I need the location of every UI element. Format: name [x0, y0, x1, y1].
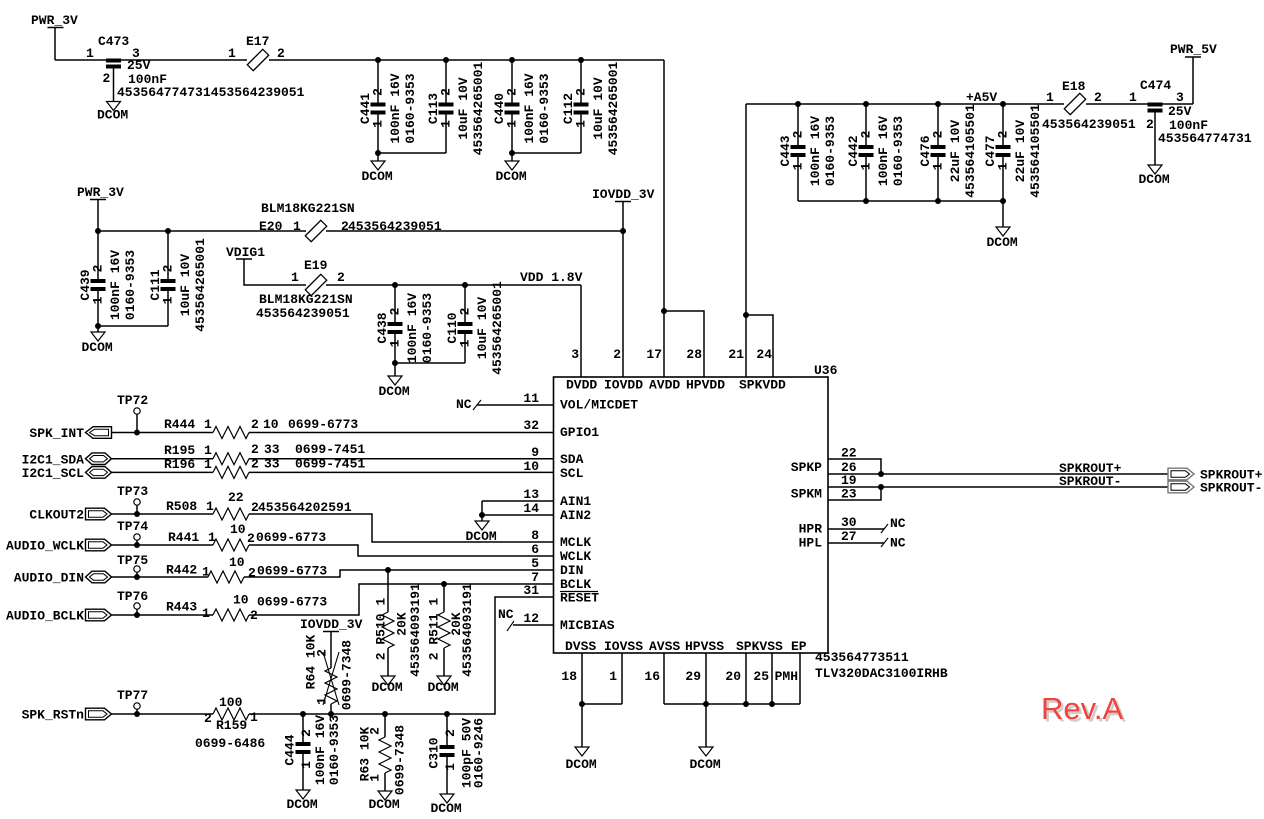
svg-text:453564265001: 453564265001: [606, 61, 621, 155]
svg-text:MCLK: MCLK: [560, 535, 591, 550]
svg-text:E19: E19: [304, 258, 328, 273]
svg-text:1: 1: [438, 120, 453, 128]
svg-text:5: 5: [531, 556, 539, 571]
svg-text:18: 18: [561, 669, 577, 684]
svg-text:TP74: TP74: [117, 519, 148, 534]
svg-text:10uF 10V: 10uF 10V: [475, 297, 490, 360]
svg-text:10: 10: [229, 555, 245, 570]
pin number 31 (RESET): [523, 583, 599, 606]
node junction R64: [328, 711, 334, 717]
pin number 17 (AVDD): [646, 347, 662, 362]
svg-text:TP76: TP76: [117, 589, 148, 604]
node junction SPKROUT-: [878, 484, 884, 490]
ground DCOM (C441/C113): [362, 161, 393, 184]
U36 right pin names SPKP/SPKM: [791, 460, 822, 502]
svg-text:453564774731: 453564774731: [1158, 131, 1252, 146]
svg-text:27: 27: [841, 529, 857, 544]
svg-text:AUDIO_WCLK: AUDIO_WCLK: [6, 539, 84, 554]
svg-text:DCOM: DCOM: [369, 797, 400, 812]
svg-text:R442: R442: [166, 563, 197, 578]
svg-text:453564239051: 453564239051: [211, 85, 305, 100]
wire AVSS-EP rail: [664, 703, 800, 705]
wire R508 to MCLK pin 8: [249, 514, 554, 542]
svg-text:22: 22: [841, 446, 857, 461]
ferrite bead E20: [259, 201, 442, 242]
wire C440-C112 bottom rail: [512, 152, 581, 154]
svg-text:TP75: TP75: [117, 553, 148, 568]
resistor R510 20K: [373, 570, 423, 677]
node junction C110 top: [462, 282, 468, 288]
svg-text:AIN2: AIN2: [560, 508, 591, 523]
capacitor C443 100nF: [778, 104, 838, 201]
svg-text:DCOM: DCOM: [566, 757, 597, 772]
svg-text:23: 23: [841, 487, 857, 502]
capacitor C440 100nF: [492, 60, 552, 153]
svg-text:453564265001: 453564265001: [471, 61, 486, 155]
svg-text:SPKP: SPKP: [791, 460, 822, 475]
wire to ground (C441): [377, 153, 379, 161]
node junction C441 top: [375, 57, 381, 63]
pin 30 HPR no-connect: [799, 515, 906, 537]
svg-text:14: 14: [523, 501, 539, 516]
wire SPKROUT-: [881, 474, 1168, 489]
svg-text:13: 13: [523, 487, 539, 502]
svg-text:28: 28: [686, 347, 702, 362]
wire branch to SPKVDD pin 24: [746, 315, 773, 377]
node junction SPKVDD: [743, 312, 749, 318]
svg-text:AVDD: AVDD: [649, 378, 680, 393]
svg-text:1: 1: [930, 162, 945, 170]
svg-text:2: 2: [90, 264, 105, 272]
node junction TP76: [134, 612, 140, 618]
capacitor C310 100pF: [426, 714, 486, 794]
ferrite bead E19: [256, 258, 353, 321]
wire to ground (C439): [97, 326, 99, 332]
wire +A5V rail: [746, 103, 1193, 105]
svg-text:DVSS: DVSS: [565, 639, 596, 654]
svg-text:SPKM: SPKM: [791, 487, 822, 502]
power flag PWR_3V (top-left): [31, 13, 78, 60]
svg-text:22: 22: [228, 490, 244, 505]
svg-text:8: 8: [531, 528, 539, 543]
svg-text:1: 1: [160, 296, 175, 304]
pin number 10 (SCL): [523, 459, 583, 481]
pin 29 HPVSS: [685, 653, 706, 704]
svg-text:DCOM: DCOM: [496, 169, 527, 184]
ferrite bead E17: [211, 34, 305, 100]
svg-text:2: 2: [367, 727, 382, 735]
wire HPVSS to ground: [705, 704, 707, 747]
resistor R195 33: [164, 442, 365, 465]
pin number 24 (SPKVDD): [756, 347, 772, 362]
node junction C439 bottom: [95, 323, 101, 329]
svg-text:C443: C443: [778, 135, 793, 166]
svg-text:+A5V: +A5V: [966, 90, 997, 105]
svg-text:1: 1: [293, 219, 301, 234]
node junction TP72: [134, 430, 140, 436]
svg-text:2 R510 1: 2 R510 1: [373, 598, 388, 661]
revision label Rev.A: [1041, 691, 1126, 729]
svg-text:0699-7451: 0699-7451: [295, 457, 365, 472]
capacitor C113 10uF: [426, 60, 486, 155]
node junction R63: [382, 711, 388, 717]
wire R444 to GPIO1 pin 32: [249, 432, 554, 434]
svg-text:E17: E17: [246, 34, 269, 49]
svg-text:2: 2: [277, 46, 285, 61]
pin number 5 (DIN): [531, 556, 583, 578]
svg-text:R64 10K: R64 10K: [303, 634, 318, 689]
pin 19 SPKM: [828, 473, 881, 488]
svg-text:20: 20: [725, 669, 741, 684]
svg-text:2: 2: [251, 417, 259, 432]
svg-text:453564773511: 453564773511: [815, 650, 909, 665]
resistor R196 33: [164, 457, 365, 479]
capacitor C477 22uF: [983, 104, 1043, 201]
wire AIN1 to AIN2: [481, 501, 483, 515]
node junction HPVSS: [703, 701, 709, 707]
svg-text:DCOM: DCOM: [379, 384, 410, 399]
ground DCOM (AVSS): [690, 747, 721, 772]
svg-text:29: 29: [685, 669, 701, 684]
connector tag AUDIO_WCLK: [6, 539, 112, 554]
svg-text:100nF 16V: 100nF 16V: [388, 73, 403, 143]
svg-text:DCOM: DCOM: [428, 680, 459, 695]
wire PWR_3V to C473/E17: [55, 59, 247, 61]
svg-text:453564239051: 453564239051: [1042, 117, 1136, 132]
svg-text:2: 2: [1094, 90, 1102, 105]
pin 12 MICBIAS no-connect: [498, 607, 615, 633]
svg-text:IOVSS: IOVSS: [604, 639, 643, 654]
test point TP75: [117, 553, 148, 577]
wire R196 to SCL pin 10: [249, 471, 554, 473]
svg-text:30: 30: [841, 515, 857, 530]
svg-text:1: 1: [367, 774, 382, 782]
pin number 2 (IOVDD): [613, 347, 621, 362]
svg-text:10: 10: [230, 522, 246, 537]
node junction TP74: [134, 542, 140, 548]
svg-text:DCOM: DCOM: [987, 235, 1018, 250]
svg-text:2: 2: [370, 88, 385, 96]
power flag PWR_5V: [1170, 42, 1217, 104]
resistor R441 10: [168, 522, 326, 551]
ground DCOM (DVSS): [566, 747, 597, 772]
wire AIN to ground: [481, 515, 483, 521]
resistor R508 22: [166, 490, 352, 520]
svg-text:E18: E18: [1062, 79, 1086, 94]
wire R443 to BCLK pin 7: [249, 584, 554, 615]
connector tag CLKOUT2: [29, 508, 111, 523]
node junction C441 bottom: [375, 150, 381, 156]
wire SPK_INT to R444: [112, 432, 214, 434]
svg-text:C444: C444: [282, 734, 297, 765]
node junction C438 top: [392, 282, 398, 288]
svg-text:1: 1: [443, 763, 458, 771]
svg-text:0699-6773: 0699-6773: [256, 530, 326, 545]
svg-text:2: 2: [858, 130, 873, 138]
node junction TP75: [134, 574, 140, 580]
svg-text:R508: R508: [166, 499, 197, 514]
svg-text:31: 31: [523, 583, 539, 598]
node junction C440 bottom: [509, 150, 515, 156]
svg-text:GPIO1: GPIO1: [560, 425, 599, 440]
wire R442 to DIN pin 5: [244, 570, 554, 577]
svg-text:22uF 10V: 22uF 10V: [948, 120, 963, 183]
svg-text:HPVDD: HPVDD: [686, 378, 725, 393]
svg-text:C111: C111: [148, 269, 163, 300]
svg-text:U36: U36: [814, 363, 838, 378]
svg-text:1: 1: [228, 46, 236, 61]
node junction C476 bottom: [935, 198, 941, 204]
node junction R511/BCLK: [441, 581, 447, 587]
svg-text:2: 2: [1146, 117, 1154, 132]
capacitor C112 10uF: [561, 60, 621, 155]
svg-text:1: 1: [314, 697, 329, 705]
svg-text:0160-9353: 0160-9353: [891, 116, 906, 186]
wire VDD 1.8V to pin 3: [580, 285, 582, 377]
svg-text:I2C1_SCL: I2C1_SCL: [22, 466, 85, 481]
svg-text:C112: C112: [561, 93, 576, 124]
svg-text:1: 1: [204, 417, 212, 432]
svg-text:Rev.A: Rev.A: [1041, 691, 1123, 726]
U36 top pin names: [566, 378, 786, 393]
svg-text:C476: C476: [918, 135, 933, 166]
capacitor C438 100nF: [375, 285, 435, 363]
svg-text:IOVDD: IOVDD: [604, 378, 643, 393]
svg-text:2: 2: [251, 457, 259, 472]
capacitor C110 10uF: [445, 281, 505, 375]
svg-text:R443: R443: [166, 600, 197, 615]
pin number 7 (BCLK): [531, 570, 591, 592]
svg-text:24: 24: [756, 347, 772, 362]
svg-text:SPKROUT-: SPKROUT-: [1059, 474, 1121, 489]
svg-text:1: 1: [858, 162, 873, 170]
ground DCOM (R510): [372, 676, 403, 695]
connector tag SPK_RSTn: [22, 708, 112, 723]
svg-text:1: 1: [609, 669, 617, 684]
svg-text:6: 6: [531, 542, 539, 557]
svg-text:C438: C438: [375, 312, 390, 343]
pin 13 AIN1: [482, 487, 591, 509]
svg-text:RESET: RESET: [560, 591, 599, 606]
svg-text:0160-9246: 0160-9246: [471, 718, 486, 788]
capacitor C111 10uF: [148, 231, 208, 332]
svg-text:2: 2: [247, 531, 255, 546]
wire DVSS-IOVSS rail: [582, 703, 622, 705]
svg-text:1: 1: [86, 46, 94, 61]
svg-text:2: 2: [103, 71, 111, 86]
svg-text:NC: NC: [498, 607, 514, 622]
svg-text:SPKVDD: SPKVDD: [739, 378, 786, 393]
svg-text:C440: C440: [492, 93, 507, 124]
pin number 21 (SPKVDD): [728, 347, 744, 362]
ground DCOM (C474): [1139, 165, 1170, 187]
svg-text:1: 1: [457, 339, 472, 347]
svg-text:10uF 10V: 10uF 10V: [591, 77, 606, 140]
svg-text:DCOM: DCOM: [97, 108, 128, 123]
svg-text:2: 2: [299, 729, 314, 737]
resistor R64 10K (DNI crossed out): [303, 632, 354, 715]
test point TP72: [117, 393, 148, 433]
svg-text:IOVDD_3V: IOVDD_3V: [300, 617, 363, 632]
resistor R511 20K: [426, 583, 475, 677]
node junction C477 bottom: [1000, 198, 1006, 204]
svg-text:1: 1: [250, 710, 258, 725]
svg-text:C110: C110: [445, 312, 460, 343]
capacitor C474 (3-terminal feedthrough): [1129, 78, 1252, 165]
svg-text:AUDIO_BCLK: AUDIO_BCLK: [6, 609, 84, 624]
svg-text:453564265001: 453564265001: [490, 281, 505, 375]
wire SDA to R195: [112, 458, 214, 460]
svg-text:PWR_3V: PWR_3V: [77, 185, 124, 200]
node junction C476 top: [935, 101, 941, 107]
svg-text:C310: C310: [426, 737, 441, 768]
pin 20 SPKVSS: [725, 653, 746, 704]
svg-text:E20: E20: [259, 219, 283, 234]
svg-text:SPKROUT-: SPKROUT-: [1200, 481, 1262, 496]
svg-text:2: 2: [790, 130, 805, 138]
capacitor C442 100nF: [846, 104, 906, 201]
wire +A5V caps bottom rail: [798, 200, 1003, 202]
svg-text:25V: 25V: [1168, 104, 1192, 119]
svg-text:DCOM: DCOM: [287, 797, 318, 812]
svg-text:21: 21: [728, 347, 744, 362]
svg-text:453564774731: 453564774731: [117, 85, 211, 100]
node junction SPKVSS25: [769, 701, 775, 707]
node junction SPKVSS20: [743, 701, 749, 707]
svg-text:1: 1: [370, 120, 385, 128]
svg-text:453564265001: 453564265001: [193, 238, 208, 332]
svg-text:R444: R444: [164, 417, 195, 432]
svg-text:R441: R441: [168, 530, 199, 545]
node junction R510/DIN: [385, 567, 391, 573]
svg-text:AIN1: AIN1: [560, 494, 591, 509]
svg-text:1: 1: [206, 499, 214, 514]
svg-text:2: 2: [438, 88, 453, 96]
svg-text:0160-9353: 0160-9353: [823, 116, 838, 186]
wire C439-C111 bottom rail: [98, 325, 168, 327]
wire E17 to AVDD feed: [269, 59, 664, 61]
node label +A5V: [966, 90, 997, 105]
svg-text:DCOM: DCOM: [82, 340, 113, 355]
svg-text:33: 33: [264, 442, 280, 457]
wire R195 to SDA pin 9: [249, 458, 554, 460]
svg-text:MICBIAS: MICBIAS: [560, 618, 615, 633]
svg-text:2: 2: [930, 130, 945, 138]
svg-text:100nF 16V: 100nF 16V: [108, 250, 123, 320]
svg-text:100nF 16V: 100nF 16V: [522, 73, 537, 143]
node junction C443 top: [795, 101, 801, 107]
svg-text:2: 2: [251, 442, 259, 457]
node junction C310: [444, 711, 450, 717]
svg-text:0699-7348: 0699-7348: [392, 725, 407, 795]
connector tag AUDIO_DIN: [14, 571, 112, 586]
svg-text:AVSS: AVSS: [649, 639, 680, 654]
svg-text:VOL/MICDET: VOL/MICDET: [560, 398, 638, 413]
wire PWR_3V to E20: [98, 230, 306, 232]
svg-text:1: 1: [291, 270, 299, 285]
svg-text:1: 1: [573, 120, 588, 128]
svg-text:17: 17: [646, 347, 662, 362]
svg-text:3: 3: [1176, 90, 1184, 105]
svg-text:DCOM: DCOM: [1139, 172, 1170, 187]
svg-text:SCL: SCL: [560, 466, 584, 481]
svg-text:R196: R196: [164, 457, 195, 472]
node junction AVDD/HPVDD: [661, 308, 667, 314]
wire AUDIO_DIN to R442: [112, 576, 209, 578]
capacitor C441 100nF: [358, 60, 418, 153]
pin 22 SPKP: [828, 446, 881, 475]
pin 16 AVSS: [644, 653, 664, 704]
ground DCOM (C444): [287, 790, 318, 812]
pin 25 SPKVSS: [753, 653, 772, 704]
connector tag I2C1_SDA: [22, 453, 112, 468]
ground DCOM (R511): [428, 676, 459, 695]
ground DCOM (C438/C110): [379, 376, 410, 399]
wire DVSS to ground: [581, 704, 583, 747]
svg-text:16: 16: [644, 669, 660, 684]
svg-text:453564093191: 453564093191: [460, 583, 475, 677]
svg-text:1: 1: [387, 339, 402, 347]
svg-text:0160-9353: 0160-9353: [537, 73, 552, 143]
wire CLKOUT2 to R508: [112, 513, 214, 515]
resistor R63 10K: [357, 714, 407, 795]
svg-text:SPKVSS: SPKVSS: [736, 639, 783, 654]
net label VDIG1: [226, 245, 306, 285]
node junction C111 top: [165, 228, 171, 234]
svg-text:2: 2: [387, 307, 402, 315]
wire C441-C113 bottom rail: [378, 152, 446, 154]
wire to ground (C438): [394, 363, 396, 376]
svg-text:TP77: TP77: [117, 688, 148, 703]
pin number 6 (WCLK): [531, 542, 591, 564]
svg-text:R159: R159: [216, 718, 247, 733]
node junction SPKROUT+: [878, 471, 884, 477]
capacitor C473 (3-terminal feedthrough): [86, 34, 211, 101]
svg-text:HPR: HPR: [799, 522, 823, 537]
pin 1 IOVSS: [609, 653, 622, 704]
connector tag SPK_INT: [29, 426, 111, 441]
wire to ground (+A5V caps): [1002, 201, 1004, 227]
svg-text:2: 2: [443, 729, 458, 737]
wire branch to HPVDD pin 28: [664, 311, 704, 377]
svg-text:100nF 16V: 100nF 16V: [876, 116, 891, 186]
ground DCOM (AIN): [466, 521, 497, 544]
svg-text:1: 1: [995, 162, 1010, 170]
node junction C442 top: [863, 101, 869, 107]
ferrite bead E18: [1042, 79, 1136, 132]
pin 27 HPL no-connect: [799, 529, 906, 551]
svg-text:C477: C477: [983, 135, 998, 166]
svg-text:2: 2: [314, 649, 329, 657]
svg-text:1: 1: [202, 565, 210, 580]
ground DCOM (C440/C112): [496, 161, 527, 184]
ground DCOM (R63): [369, 791, 400, 812]
svg-text:2: 2: [573, 88, 588, 96]
pin number 8 (MCLK): [531, 528, 591, 550]
svg-text:0699-6773: 0699-6773: [257, 595, 327, 610]
power flag PWR_3V (mid-left): [77, 185, 124, 231]
svg-text:C442: C442: [846, 135, 861, 166]
test point TP74: [117, 519, 148, 545]
svg-text:C113: C113: [426, 93, 441, 124]
net label IOVDD_3V (bottom): [300, 617, 363, 632]
test point TP73: [117, 484, 148, 514]
pin number 3 (DVDD): [571, 347, 579, 362]
wire AUDIO_BCLK to R443: [112, 614, 214, 616]
pin 26 SPKP: [828, 460, 881, 475]
pin number 28 (HPVDD): [686, 347, 702, 362]
svg-text:C439: C439: [78, 269, 93, 300]
